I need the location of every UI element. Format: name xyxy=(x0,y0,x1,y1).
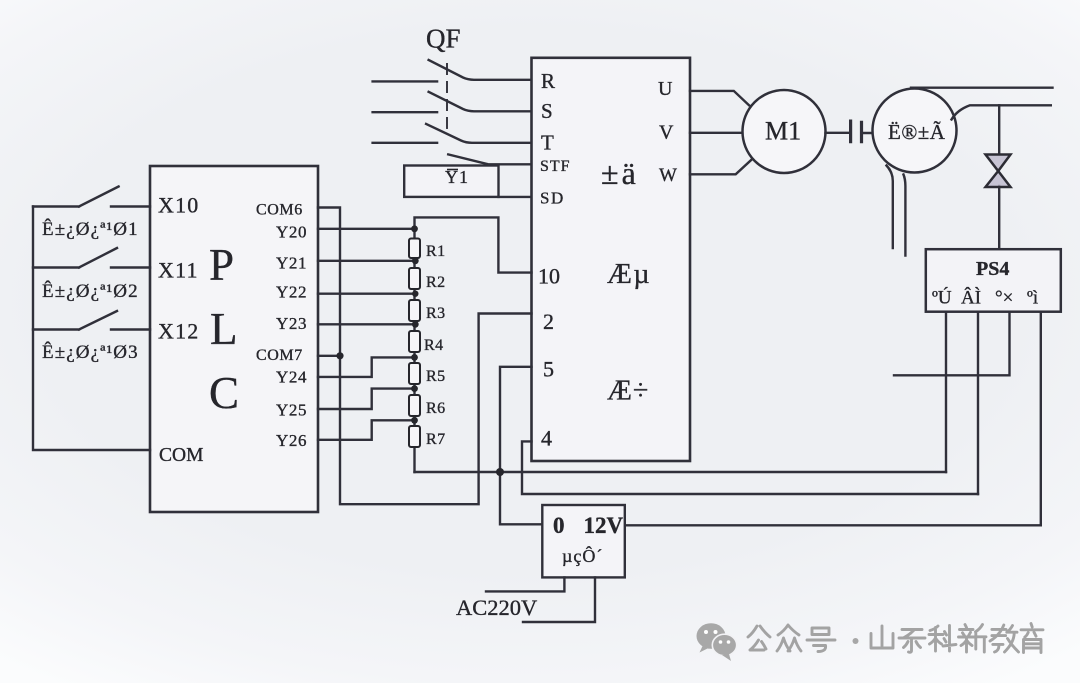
svg-text:X10: X10 xyxy=(158,193,200,218)
svg-text:ºì: ºì xyxy=(1027,288,1038,309)
svg-text:PS4: PS4 xyxy=(976,258,1009,280)
svg-text:R5: R5 xyxy=(426,368,446,385)
svg-text:0: 0 xyxy=(553,513,565,538)
svg-text:12V: 12V xyxy=(584,513,624,538)
svg-text:M1: M1 xyxy=(765,117,801,146)
svg-text:Æ÷: Æ÷ xyxy=(607,376,649,407)
svg-text:ºÚ: ºÚ xyxy=(932,287,952,309)
svg-text:Y24: Y24 xyxy=(276,368,307,387)
svg-text:R3: R3 xyxy=(426,305,446,322)
svg-text:COM: COM xyxy=(159,445,203,466)
svg-text:COM7: COM7 xyxy=(256,347,303,364)
svg-text:Ë®±Ã: Ë®±Ã xyxy=(888,120,946,144)
svg-text:±ä: ±ä xyxy=(601,155,639,191)
svg-text:4: 4 xyxy=(541,426,552,451)
svg-text:V: V xyxy=(659,122,674,144)
svg-text:2: 2 xyxy=(543,309,554,334)
svg-text:U: U xyxy=(658,78,673,100)
svg-text:STF: STF xyxy=(540,158,571,175)
svg-text:Y20: Y20 xyxy=(276,223,307,242)
svg-text:Y21: Y21 xyxy=(276,254,307,273)
svg-text:W: W xyxy=(659,165,677,186)
svg-text:R6: R6 xyxy=(426,400,446,417)
svg-text:Ê±¿Ø¿ª¹Ø1: Ê±¿Ø¿ª¹Ø1 xyxy=(42,218,139,240)
svg-text:Æµ: Æµ xyxy=(607,259,651,290)
svg-text:SD: SD xyxy=(540,189,565,208)
svg-text:Y22: Y22 xyxy=(276,283,307,302)
svg-text:R: R xyxy=(541,69,555,93)
svg-text:P: P xyxy=(209,240,234,290)
svg-text:R1: R1 xyxy=(426,243,446,260)
svg-text:S: S xyxy=(541,99,553,123)
svg-text:Ê±¿Ø¿ª¹Ø3: Ê±¿Ø¿ª¹Ø3 xyxy=(42,341,139,363)
svg-text:R2: R2 xyxy=(426,274,446,291)
svg-text:QF: QF xyxy=(426,24,461,54)
svg-text:°×: °× xyxy=(995,288,1013,309)
svg-text:AC220V: AC220V xyxy=(456,595,537,620)
svg-text:X11: X11 xyxy=(158,258,199,283)
svg-text:COM6: COM6 xyxy=(256,202,303,219)
svg-text:R4: R4 xyxy=(424,337,444,354)
svg-text:Y26: Y26 xyxy=(276,431,307,450)
svg-text:R7: R7 xyxy=(426,431,446,448)
svg-text:Y25: Y25 xyxy=(276,401,307,420)
svg-text:X12: X12 xyxy=(158,319,200,344)
svg-text:5: 5 xyxy=(543,357,554,382)
svg-text:ÂÌ: ÂÌ xyxy=(961,287,981,309)
svg-text:C: C xyxy=(209,368,239,418)
svg-text:L: L xyxy=(210,304,238,354)
svg-text:Ê±¿Ø¿ª¹Ø2: Ê±¿Ø¿ª¹Ø2 xyxy=(42,280,139,302)
svg-text:10: 10 xyxy=(538,264,560,289)
svg-text:T: T xyxy=(541,131,554,155)
svg-text:µçÔ´: µçÔ´ xyxy=(562,545,603,566)
svg-text:Y23: Y23 xyxy=(276,314,307,333)
